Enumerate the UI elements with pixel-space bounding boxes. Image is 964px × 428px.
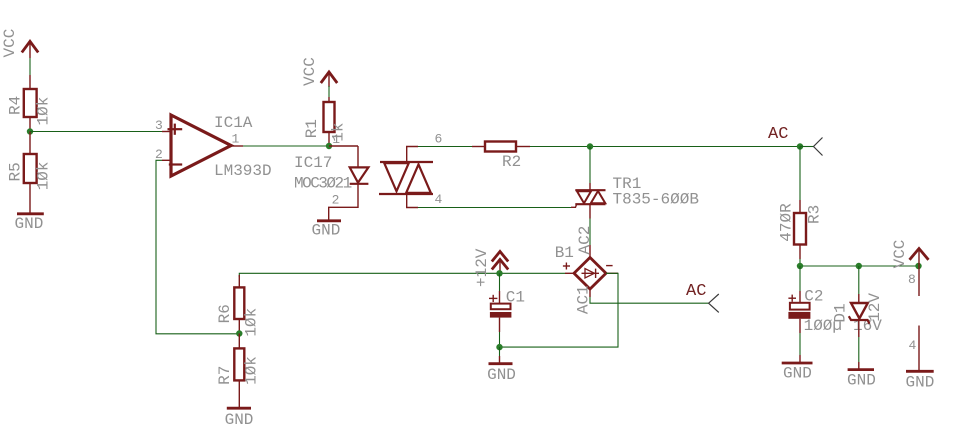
svg-text:GND: GND	[225, 411, 254, 428]
node junction R4/R5/op-amp	[27, 128, 33, 134]
node junction R3/C2	[797, 263, 803, 269]
svg-text:R6: R6	[216, 304, 234, 323]
wire R3 to VCC rail	[799, 259, 801, 266]
svg-text:12V: 12V	[866, 293, 884, 322]
wire VCC to R4	[29, 58, 31, 75]
ground (below C2)	[782, 333, 813, 383]
svg-text:LM393D: LM393D	[214, 162, 272, 180]
svg-text:R3: R3	[806, 205, 824, 224]
supply symbol VCC (top left)	[1, 29, 38, 58]
wire node to op-amp pin 3	[30, 131, 162, 133]
svg-text:R4: R4	[7, 96, 25, 115]
wire R2 to AC node	[530, 146, 800, 148]
ground (op-amp pin 4)	[906, 371, 935, 391]
svg-text:1Øk: 1Øk	[34, 161, 52, 190]
svg-text:VCC: VCC	[301, 57, 319, 86]
svg-text:GND: GND	[847, 372, 876, 390]
resistor R1	[303, 97, 348, 146]
svg-text:MOC3Ø21: MOC3Ø21	[294, 175, 352, 193]
node junction VCC pin8	[915, 263, 921, 269]
resistor R2	[472, 142, 530, 172]
opto-triac IC17 MOC3021	[294, 132, 443, 221]
svg-text:D1: D1	[832, 303, 850, 322]
resistor R7	[216, 334, 260, 409]
svg-text:T835-6ØØB: T835-6ØØB	[613, 191, 699, 209]
svg-text:R2: R2	[502, 153, 521, 171]
bridge rectifier B1	[555, 226, 618, 314]
resistor R6	[216, 275, 260, 337]
svg-text:1Øk: 1Øk	[243, 356, 261, 385]
svg-text:GND: GND	[783, 365, 812, 383]
svg-text:AC: AC	[768, 125, 788, 144]
triac TR1 T835-600B	[571, 175, 699, 219]
node junction +12V/C1	[496, 270, 502, 276]
wire node to TR1	[589, 147, 591, 184]
resistor R5	[7, 132, 53, 214]
pin end chevron (AC middle)	[709, 294, 719, 312]
resistor R4	[7, 75, 53, 132]
svg-text:3: 3	[155, 118, 163, 133]
svg-text:R1: R1	[303, 119, 321, 138]
wire AC node to pin end	[800, 146, 814, 148]
op-amp U1 IC1A LM393D	[155, 114, 272, 180]
svg-text:1Øk: 1Øk	[243, 308, 261, 337]
wire IC17 pin4 to TR1 gate	[418, 207, 571, 209]
svg-text:AC: AC	[686, 282, 706, 301]
svg-text:6: 6	[435, 132, 443, 147]
supply symbol VCC (op-amp pin 8)	[891, 240, 929, 296]
node junction R1/op-amp out/IC17 pin1	[326, 143, 332, 149]
svg-text:GND: GND	[906, 374, 935, 392]
wire VCC rail horizontal	[800, 265, 919, 267]
wire op-amp pin 2 to R6/R7 node	[156, 160, 239, 333]
wire op-amp output to node	[243, 145, 329, 147]
svg-text:VCC: VCC	[891, 240, 909, 269]
node junction C1/B1 ground	[496, 344, 502, 350]
svg-text:AC2: AC2	[576, 226, 594, 255]
svg-text:8: 8	[908, 272, 916, 287]
ground (below R7)	[225, 408, 254, 428]
wire op-amp pin2 rail to +12V node	[239, 273, 565, 277]
svg-text:GND: GND	[487, 366, 516, 384]
wire IC17 pin6 to R2	[418, 146, 472, 148]
wire bridge AC1 to AC stub	[590, 297, 709, 303]
pin end chevron (AC right)	[814, 138, 823, 156]
svg-text:IC17: IC17	[294, 154, 332, 172]
svg-text:C2: C2	[804, 288, 823, 306]
node junction R2/TR1	[587, 143, 593, 149]
svg-text:GND: GND	[312, 222, 341, 240]
svg-text:4: 4	[435, 192, 443, 207]
svg-text:GND: GND	[15, 215, 44, 233]
svg-text:2: 2	[332, 192, 340, 207]
op-amp power pin 4 stub	[909, 326, 920, 372]
svg-text:1Øk: 1Øk	[34, 97, 52, 126]
node junction R6/R7	[236, 330, 242, 336]
svg-text:2: 2	[155, 147, 163, 162]
svg-text:4: 4	[909, 338, 917, 353]
svg-text:47ØR: 47ØR	[778, 203, 796, 242]
svg-text:VCC: VCC	[1, 29, 19, 58]
capacitor C2	[788, 266, 882, 335]
svg-text:B1: B1	[555, 244, 574, 262]
zener diode D1 12V	[832, 266, 885, 337]
wire TR1 to bridge B1	[589, 219, 591, 246]
svg-text:R5: R5	[7, 162, 25, 181]
ground (below D1)	[847, 337, 876, 390]
resistor R3	[778, 200, 824, 259]
supply symbol +12V	[473, 248, 508, 287]
svg-text:1: 1	[232, 132, 240, 147]
svg-text:IC1A: IC1A	[214, 114, 253, 132]
svg-text:C1: C1	[506, 289, 525, 307]
ground (IC17 pin 2)	[312, 221, 342, 240]
svg-text:+12V: +12V	[473, 248, 491, 287]
wire AC node down to R3	[799, 147, 801, 201]
wire C1 to ground node	[499, 332, 501, 347]
supply symbol VCC (above R1)	[301, 57, 337, 87]
svg-text:1: 1	[332, 132, 340, 147]
svg-text:R7: R7	[216, 366, 234, 385]
wire bridge minus to C1 ground rail	[500, 273, 619, 347]
capacitor C1	[489, 273, 525, 332]
node junction D1	[856, 263, 862, 269]
wire VCC to R1	[328, 86, 330, 97]
ground (below C1)	[487, 347, 516, 384]
node junction AC/R3	[797, 143, 803, 149]
ground (below R5)	[15, 214, 44, 233]
